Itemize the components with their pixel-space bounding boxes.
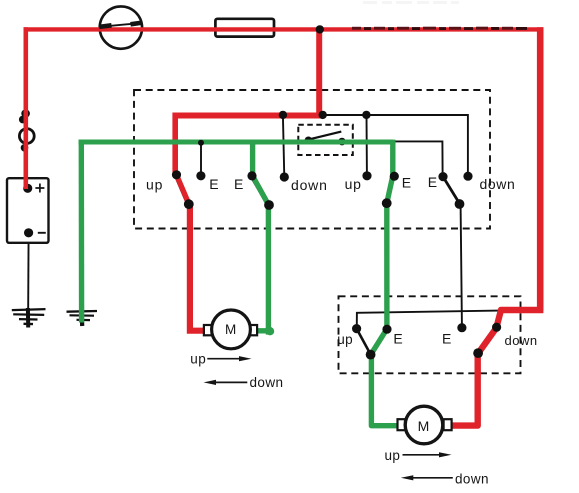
terminal E (door unit second) xyxy=(457,323,466,332)
pivot contact (main up switch) xyxy=(184,199,194,209)
arrow up (motor 1) xyxy=(190,352,251,367)
wire green right E switch down to door unit and motor 2 xyxy=(371,140,398,426)
ammeter needle xyxy=(99,23,142,27)
terminal E (main left first) xyxy=(196,171,205,180)
svg-text:up: up xyxy=(337,332,353,347)
safety cut-out switch dashed box xyxy=(298,125,353,155)
node junction red to black feed xyxy=(319,111,327,119)
arrow down (motor 1) xyxy=(204,375,284,390)
terminal down (door unit) xyxy=(492,323,501,332)
faint cropped text at top edge xyxy=(363,1,459,4)
node junction E stub on green line xyxy=(198,140,204,146)
label up (door unit) xyxy=(337,332,353,347)
label E (main right second) xyxy=(428,174,437,190)
node junction on supply wire xyxy=(316,25,324,33)
label E (main left first) xyxy=(209,176,218,192)
fuse xyxy=(215,19,274,37)
label E (door unit first) xyxy=(393,331,402,347)
svg-text:up: up xyxy=(146,177,163,193)
terminal E (main right first) xyxy=(390,172,399,181)
wire red right side to door unit and motor 2 xyxy=(449,310,544,426)
terminal up (main left) xyxy=(172,170,181,179)
svg-text:E: E xyxy=(209,176,218,192)
svg-text:down: down xyxy=(480,176,516,192)
wire red battery positive feed (left vertical) xyxy=(23,27,28,189)
svg-text:up: up xyxy=(345,176,362,192)
wire door unit down terminal feed xyxy=(497,311,500,324)
label E (main left second) xyxy=(234,176,243,192)
motor M2 xyxy=(398,406,452,444)
wire green earth drop (left) xyxy=(79,140,85,323)
label up (main right) xyxy=(345,176,362,192)
svg-text:M: M xyxy=(225,322,236,337)
svg-text:E: E xyxy=(428,174,437,190)
switch lever red (main up, closed) xyxy=(176,175,189,204)
ammeter body xyxy=(100,6,142,48)
wire red to motor 1 xyxy=(190,203,207,331)
wire red panel horizontal xyxy=(173,113,323,119)
terminal E (main right second) xyxy=(438,172,447,181)
label down (main right) xyxy=(480,176,516,192)
terminal up (door unit) xyxy=(352,324,361,333)
svg-text:down: down xyxy=(291,177,328,193)
wire green elbow overshoot at motor 1 xyxy=(266,327,274,335)
svg-text:up: up xyxy=(190,352,206,367)
wire left E terminal stub xyxy=(200,143,202,172)
arrow up (motor 2) xyxy=(385,448,452,463)
svg-text:E: E xyxy=(442,331,451,347)
wire red to up switch xyxy=(172,113,178,177)
battery xyxy=(7,178,49,243)
wire red branch into main panel xyxy=(316,29,322,116)
connector on battery feed xyxy=(19,109,34,151)
wire to right up terminal xyxy=(366,115,368,172)
main switch panel dashed box xyxy=(134,90,490,229)
wire battery negative to ground xyxy=(27,233,30,322)
terminal E (door unit first) xyxy=(382,325,391,334)
svg-text:E: E xyxy=(393,331,402,347)
terminal up (main right) xyxy=(362,171,371,180)
door switch unit dashed box xyxy=(339,296,521,373)
watermark fragments over supply wire xyxy=(352,27,527,30)
pivot contact (main left E switch) xyxy=(264,200,274,210)
svg-text:down: down xyxy=(250,375,284,390)
switch lever black (main right E, under green) xyxy=(387,176,395,203)
node junction left down branch xyxy=(279,111,287,119)
node junction right up branch xyxy=(362,111,370,119)
label down (door unit) xyxy=(505,333,538,348)
safety cut-out switch contacts and blade xyxy=(305,132,346,146)
switch lever black (door unit up) xyxy=(357,329,371,354)
ground (battery earth) xyxy=(12,308,46,328)
svg-text:E: E xyxy=(234,176,243,192)
wire green line branch to right E terminal xyxy=(394,141,443,172)
pivot contact (door unit up switch) xyxy=(366,350,376,360)
svg-text:down: down xyxy=(505,333,538,348)
label up (main left) xyxy=(146,177,163,193)
label down (main left) xyxy=(291,177,328,193)
wire red right hand drop xyxy=(537,27,544,310)
arrow down (motor 2) xyxy=(401,472,489,487)
wire right E switch to door unit E terminal xyxy=(461,206,462,324)
wire door unit feed line xyxy=(357,311,499,325)
terminal down (main right) xyxy=(463,172,472,181)
wire green main horizontal xyxy=(79,140,393,145)
terminal E (main left second) xyxy=(247,171,256,180)
svg-text:down: down xyxy=(455,472,489,487)
motor M1 xyxy=(204,310,257,349)
switch lever black (main up, under red) xyxy=(175,175,187,204)
svg-text:E: E xyxy=(402,175,411,191)
ground (green wire earth) xyxy=(67,311,98,326)
switch lever black (main right second E) xyxy=(443,177,459,204)
svg-text:M: M xyxy=(418,418,430,434)
wire black feed line inside main panel xyxy=(323,115,468,172)
label E (door unit second) xyxy=(442,331,451,347)
pivot contact (main right E switch) xyxy=(382,198,392,208)
wire red main supply (top horizontal) xyxy=(24,27,544,31)
pivot contact (main right second E switch) xyxy=(455,199,465,209)
label E (main right first) xyxy=(402,175,411,191)
pivot contact (door unit down switch) xyxy=(473,348,483,358)
terminal down (main left) xyxy=(280,172,289,181)
wire to left down terminal xyxy=(283,115,284,173)
wire green left E switch to motor 1 xyxy=(252,143,268,331)
svg-text:up: up xyxy=(385,448,401,463)
switch lever black (main left E, under green) xyxy=(251,176,268,205)
switch lever black (door unit down, under red) xyxy=(478,328,496,353)
